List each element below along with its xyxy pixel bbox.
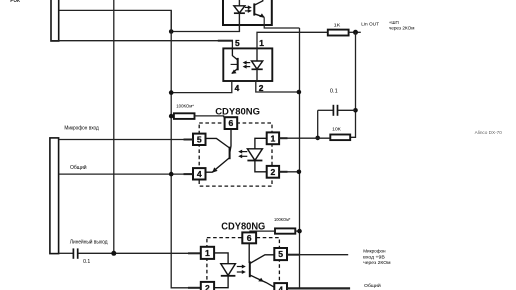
wire: cap to pin 1 of U4 — [78, 252, 201, 254]
junction dot pin2 wire on right bus — [297, 90, 302, 95]
optocoupler U3 dashed DIP outline — [199, 123, 272, 186]
LED of U2 — [256, 48, 258, 61]
connector J1 (top, cut off) — [51, 0, 59, 41]
wire: U1 emitter pin down and right to right bus — [264, 17, 299, 28]
phototransistor of U4 — [249, 261, 251, 277]
capacitor C2 0.1 — [318, 109, 333, 111]
junction dot cap branch on pin1 wire — [315, 136, 320, 141]
node Lin OUT junction dot — [353, 30, 358, 35]
wire: thick stub into pin 2 box of U4 — [188, 287, 201, 289]
svg-text:вход +9В: вход +9В — [363, 255, 385, 261]
wire: pin 1 stub of U2 to 1K resistor — [257, 32, 328, 48]
svg-text:через 2КОм: через 2КОм — [389, 26, 415, 31]
junction dot 100K left on bus — [169, 114, 174, 119]
svg-text:6: 6 — [247, 233, 252, 243]
wire: pin 5 of U4 to mic +9V — [287, 254, 348, 256]
transistor base from pin6 U4 — [248, 243, 250, 263]
svg-text:4: 4 — [197, 169, 202, 179]
resistor 10K — [330, 135, 350, 141]
pin box 4 of U3 — [193, 168, 206, 179]
light arrows of U3 — [241, 151, 248, 153]
svg-text:4: 4 — [235, 83, 240, 93]
wire: pin 1 of U3 to 10K left — [279, 137, 330, 139]
pin box 1 of U3 — [267, 132, 279, 144]
pin box 6 of U3 — [225, 117, 238, 129]
wire: pin6 U4 to 100K — [250, 231, 275, 232]
svg-text:Микрофон: Микрофон — [363, 249, 386, 255]
phototransistor of U3 — [229, 147, 231, 160]
svg-text:2: 2 — [205, 283, 210, 290]
pin box 5 of U3 — [193, 134, 206, 145]
wire: 100K to pin 6 box of U3 — [195, 116, 224, 117]
resistor 1K — [328, 30, 349, 36]
wire: top connector pin to node at (171,31.5) — [59, 10, 172, 31]
optocoupler U1 (top, cut by edge) box — [223, 0, 272, 25]
resistor 100KOm* (middle) — [174, 113, 195, 119]
svg-text:Микрофон вход: Микрофон вход — [64, 126, 99, 132]
wire: ground from pin 4 of U4 to the right — [287, 287, 350, 289]
transistor base from pin6 U3 — [230, 129, 231, 152]
LED of U1 — [238, 0, 240, 6]
wire: bus x=171.2 down to bottom pin2 wire — [171, 10, 201, 287]
pin box 2 of U4 — [201, 282, 214, 290]
svg-text:РОК: РОК — [10, 0, 21, 4]
svg-text:CDY80NG: CDY80NG — [215, 106, 260, 117]
wire: pin 2 of U3 to right bus — [279, 171, 299, 173]
pin box 2 of U3 — [267, 166, 279, 178]
pin box 5 of U4 — [274, 248, 287, 260]
light arrows of U4 — [237, 266, 244, 268]
svg-text:2: 2 — [271, 167, 276, 177]
connector J2 (microphone) — [50, 138, 59, 254]
light arrows of U2 — [245, 62, 250, 64]
wire: pin 2 stub of U2 to right bus — [256, 81, 299, 92]
wire: cap left down to pin1 wire — [317, 110, 319, 138]
wire: right bus x=299.5 down to ground wire — [299, 28, 301, 288]
svg-text:1K: 1K — [334, 22, 342, 28]
svg-text:100КОм*: 100КОм* — [176, 104, 194, 109]
pin box 6 of U4 — [242, 232, 256, 243]
junction dot pin2 U3 on right bus — [297, 170, 302, 175]
pin box 1 of U4 — [201, 247, 214, 259]
wire: pin 5 stub of U2 up to line to connector — [51, 41, 232, 49]
svg-text:4: 4 — [278, 284, 283, 290]
svg-text:+ШП: +ШП — [389, 20, 399, 25]
svg-text:2: 2 — [259, 83, 264, 93]
LED of U3 — [255, 138, 267, 149]
svg-text:Линейный выход: Линейный выход — [70, 239, 108, 246]
svg-text:5: 5 — [197, 134, 202, 144]
junction dot common wire on bus — [169, 172, 174, 177]
wire: common to pin 4 of U3 — [59, 173, 193, 175]
svg-text:1: 1 — [271, 133, 276, 143]
phototransistor of U1 — [253, 3, 255, 15]
svg-text:10К: 10К — [332, 127, 341, 133]
svg-text:Общий: Общий — [364, 282, 381, 289]
svg-text:1: 1 — [205, 248, 210, 258]
optocoupler U2 box — [223, 48, 272, 81]
svg-text:Общий: Общий — [70, 164, 87, 171]
svg-text:Alinco DX-70: Alinco DX-70 — [475, 130, 503, 135]
wire: U1 LED cathode pin down to node wire — [238, 25, 240, 32]
svg-text:5: 5 — [235, 38, 240, 48]
phototransistor of U2 — [237, 58, 239, 70]
node junction dot (171.2,31.5) — [169, 29, 174, 34]
svg-text:6: 6 — [229, 118, 234, 128]
wire: pin 4 stub of U2 to left bus — [171, 81, 232, 93]
LED of U4 — [214, 253, 228, 264]
junction dot cap right on vertical — [353, 108, 358, 113]
wire: mic input to pin 5 of U3 — [59, 139, 193, 141]
wire: node to LED cathode pin of U1 — [171, 31, 240, 33]
optocoupler U4 dashed DIP outline — [207, 238, 280, 290]
svg-text:0.1: 0.1 — [330, 88, 338, 94]
capacitor C1 0.1 — [59, 252, 73, 254]
wire: left bus x=113.8 from top edge to cap node — [113, 0, 115, 253]
svg-text:Lin OUT: Lin OUT — [361, 21, 379, 27]
junction dot left bus on lineout wire — [111, 251, 116, 256]
light arrows of U1 — [245, 6, 249, 8]
resistor 100KOm* (bottom) — [275, 228, 295, 233]
wire: Lin OUT node down to 10K — [350, 32, 355, 137]
svg-text:5: 5 — [278, 249, 283, 259]
svg-text:1: 1 — [259, 38, 264, 48]
svg-text:100КОм*: 100КОм* — [274, 217, 291, 222]
junction dot 100K on right bus — [297, 229, 302, 234]
svg-text:через 2КОм: через 2КОм — [363, 260, 391, 266]
wire: 100K right to bus — [295, 230, 299, 232]
svg-text:0.1: 0.1 — [83, 259, 90, 265]
wire: 1K to Lin OUT node — [349, 31, 361, 33]
junction dot pin4 wire on bus — [169, 90, 174, 95]
pin box 4 of U4 — [274, 283, 287, 290]
